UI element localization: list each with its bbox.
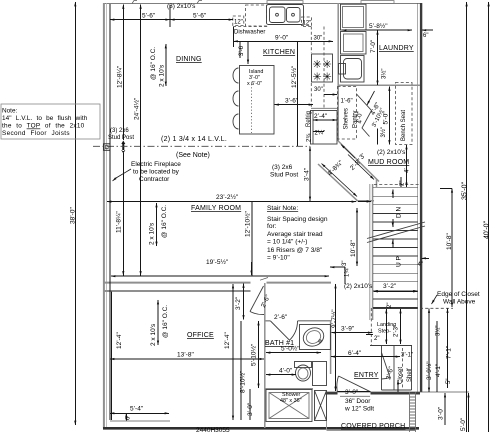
hall jog above office door <box>260 278 268 281</box>
bath door arc <box>290 321 298 340</box>
svg-text:3’-9½": 3’-9½" <box>425 361 433 380</box>
entry-porch wall right segment <box>371 392 421 394</box>
svg-text:2": 2" <box>374 336 379 342</box>
pantry 3.5 dim line <box>377 129 379 145</box>
front door leaf <box>339 376 371 392</box>
svg-text:3’-2": 3’-2" <box>235 296 242 310</box>
svg-text:4’: 4’ <box>405 168 411 173</box>
svg-text:(2) 2x10’s: (2) 2x10’s <box>377 149 406 156</box>
svg-text:24’-4½": 24’-4½" <box>133 97 141 120</box>
svg-text:MUD ROOM: MUD ROOM <box>368 159 409 166</box>
svg-text:3’-6": 3’-6" <box>285 98 299 105</box>
laundry 7ft vert dim <box>377 30 379 85</box>
12in box left of dishwasher <box>233 16 244 26</box>
bottom exterior wall <box>103 427 419 430</box>
porch left edge <box>326 392 328 430</box>
svg-text:12’-8¼": 12’-8¼" <box>117 65 124 88</box>
svg-text:Bench Seat: Bench Seat <box>401 110 407 141</box>
svg-text:(2) 2x10’s: (2) 2x10’s <box>344 283 373 290</box>
svg-text:30": 30" <box>314 87 323 93</box>
counter dashed edge below cooktop <box>310 83 312 107</box>
svg-text:1’-6": 1’-6" <box>341 99 353 105</box>
note box <box>1 104 100 139</box>
porch 3-0 vert line <box>444 393 446 425</box>
closet door arc <box>382 378 391 380</box>
edge of closet leader <box>432 295 438 304</box>
dryer box <box>341 4 367 30</box>
svg-text:DINING: DINING <box>176 56 202 63</box>
porch 5-0 vert line <box>468 393 470 432</box>
svg-text:(3) 2x6: (3) 2x6 <box>110 128 129 134</box>
office 12-4 left vert <box>111 292 113 421</box>
shower stall <box>266 390 312 422</box>
svg-text:5’-10½": 5’-10½" <box>250 343 258 366</box>
office right wall / bath left wall <box>264 283 266 428</box>
svg-text:3’-0": 3’-0" <box>438 406 445 420</box>
washer box <box>341 32 367 55</box>
bath right wall / entry left wall <box>330 321 332 374</box>
dryer inner <box>343 7 364 28</box>
svg-text:FAMILY ROOM: FAMILY ROOM <box>191 205 241 212</box>
svg-text:3": 3" <box>342 261 348 266</box>
svg-text:3’-0": 3’-0" <box>345 389 359 396</box>
closet shelf dashed <box>402 348 404 388</box>
right 10-8 dim <box>451 188 453 307</box>
bath 5-0.5 dim <box>266 352 321 354</box>
svg-text:2 x 10’s: 2 x 10’s <box>150 323 157 346</box>
sink drain left <box>276 13 279 16</box>
svg-text:12": 12" <box>303 21 312 27</box>
svg-text:3’-2": 3’-2" <box>383 283 397 290</box>
DN arrow up <box>392 190 394 199</box>
washer inner <box>344 34 364 52</box>
landing top edge <box>373 307 417 309</box>
svg-text:2’-6": 2’-6" <box>274 314 288 321</box>
2x10 joist arrow dining <box>165 44 167 86</box>
DN arrow down <box>392 219 394 227</box>
family 12-10 vert line <box>251 202 253 276</box>
svg-text:Stair Note:: Stair Note: <box>267 205 298 212</box>
kitchen 9ft drop lines <box>233 27 235 47</box>
top dim mid arrows <box>163 19 170 21</box>
pantry corner shelf diagonal <box>357 94 372 137</box>
svg-text:2": 2" <box>387 303 393 308</box>
svg-text:5’-0": 5’-0" <box>460 417 467 431</box>
mudroom 2in dim <box>400 177 402 187</box>
front door arc <box>337 376 339 392</box>
UP arrow <box>392 240 394 249</box>
svg-text:for:: for: <box>267 223 277 230</box>
right band dim lines <box>428 309 430 393</box>
landing dim line right <box>400 309 402 344</box>
stair hall left wall lower dashed <box>370 308 372 345</box>
mudroom 4ft vert dim <box>406 145 408 187</box>
family 23ft dim <box>107 201 356 203</box>
svg-text:4’-0": 4’-0" <box>279 368 293 375</box>
svg-text:12’-4": 12’-4" <box>116 332 123 349</box>
svg-text:11’-8¼": 11’-8¼" <box>116 211 123 233</box>
office top wall <box>104 290 251 292</box>
witness line left interior <box>109 4 111 420</box>
shower/bath bottom zone wall <box>265 388 313 390</box>
svg-text:Dishwasher: Dishwasher <box>234 30 265 36</box>
svg-text:12’-5½": 12’-5½" <box>290 65 298 88</box>
entry 3-0 door dim <box>338 391 371 393</box>
svg-text:Shelf: Shelf <box>407 368 413 382</box>
family room bottom wall right <box>267 282 332 284</box>
svg-text:4": 4" <box>418 262 423 268</box>
office 12-4 right vert <box>232 284 234 420</box>
svg-text:@ 16" O.C.: @ 16" O.C. <box>162 305 169 338</box>
svg-text:Edge of Closet: Edge of Closet <box>437 291 480 298</box>
stairs left wall <box>372 184 374 320</box>
bath sink oval <box>300 325 326 350</box>
svg-text:3’-4": 3’-4" <box>304 167 311 181</box>
3-4 dim near stud <box>309 147 311 202</box>
svg-text:3’-0": 3’-0" <box>247 402 254 416</box>
closet walls <box>382 345 412 390</box>
svg-text:w 12" Sdlt: w 12" Sdlt <box>344 406 374 413</box>
svg-text:23’-2½": 23’-2½" <box>216 193 239 201</box>
toilet bowl <box>296 365 311 381</box>
svg-text:(3) 2x10’s: (3) 2x10’s <box>167 3 196 10</box>
landing 2in left arrow <box>366 334 373 336</box>
kitchen sink counter <box>267 5 304 25</box>
stair treads <box>373 188 418 308</box>
stud post leader <box>122 153 124 200</box>
porch bottom edge <box>327 430 416 432</box>
family 19-5.5 dim <box>111 275 329 277</box>
header tick left <box>132 1 137 4</box>
hall 3in dim line <box>330 266 345 268</box>
svg-text:5’-4": 5’-4" <box>130 406 144 413</box>
office door leaf <box>250 286 264 312</box>
svg-text:Stud Post: Stud Post <box>270 172 298 179</box>
bath top wall right segment <box>298 320 332 322</box>
svg-text:3½": 3½" <box>435 326 442 336</box>
edge of closet dashed <box>420 307 453 309</box>
svg-text:✳: ✳ <box>323 72 332 84</box>
laundry 6in arrow <box>422 29 433 31</box>
svg-text:Note:: Note: <box>2 108 17 115</box>
laundry 3.5 vert dim <box>377 60 379 85</box>
svg-text:19’-5½": 19’-5½" <box>206 258 229 266</box>
svg-text:Refrig: Refrig <box>306 111 312 127</box>
hall dims right <box>344 267 346 284</box>
laundry sink basin <box>344 59 362 80</box>
svg-text:14" L.V.L. to be flush with: 14" L.V.L. to be flush with <box>2 115 88 122</box>
svg-text:8’-10½": 8’-10½" <box>239 370 247 393</box>
svg-text:3’-6: 3’-6 <box>239 45 245 56</box>
counter dashed edge left of cooktop <box>310 27 312 54</box>
svg-text:Average stair tread: Average stair tread <box>267 231 323 238</box>
svg-text:✳: ✳ <box>313 72 322 84</box>
svg-text:Stair Spacing design: Stair Spacing design <box>267 216 328 223</box>
island <box>240 66 275 135</box>
svg-text:(2) 1 3/4 x 14 L.V.L.: (2) 1 3/4 x 14 L.V.L. <box>161 136 227 143</box>
svg-text:2 x 10’s: 2 x 10’s <box>149 222 156 245</box>
refrigerator inner edge <box>312 111 314 145</box>
svg-text:Stud Post: Stud Post <box>108 135 134 141</box>
bench seat dashed box <box>396 83 413 145</box>
svg-text:(See Note): (See Note) <box>176 152 210 159</box>
svg-text:Electric Fireplace: Electric Fireplace <box>131 161 181 168</box>
svg-text:30": 30" <box>314 36 323 42</box>
sink basin right <box>287 8 301 23</box>
30in arrows at top <box>312 40 325 42</box>
svg-text:ENTRY: ENTRY <box>354 372 379 379</box>
island stool 2 <box>233 91 239 106</box>
header tick right <box>197 1 202 4</box>
svg-text:12": 12" <box>234 20 243 26</box>
11-8 dim line x123 lower <box>122 153 124 276</box>
kitchen right counter dashed edge <box>323 27 325 109</box>
hall 3-2 vert dim <box>243 284 245 320</box>
svg-text:3’-1": 3’-1" <box>401 353 413 359</box>
bath top wall left stub <box>265 320 271 322</box>
12-8 dim line x123 <box>122 5 124 141</box>
mudroom diagonal wall lower <box>318 164 358 201</box>
stairs 3-2 dim <box>374 290 418 292</box>
left 38ft dimension line <box>74 2 76 425</box>
laundry bottom / pantry top wall <box>338 84 420 86</box>
cooktop box <box>312 54 333 82</box>
porch hatch border <box>410 392 416 432</box>
right exterior wall <box>420 3 422 392</box>
toilet tank <box>295 362 312 368</box>
svg-text:4’-0": 4’-0" <box>358 111 364 123</box>
svg-text:✳: ✳ <box>323 59 332 71</box>
stair break line 2 <box>367 226 425 243</box>
30in lower arrow <box>324 94 337 96</box>
bath vanity counter <box>300 325 331 350</box>
svg-text:2¼": 2¼" <box>315 131 325 137</box>
landing dim line left <box>385 309 387 344</box>
2x10 joist arrow family <box>156 203 158 246</box>
diagonal hall width arrow 3ft <box>341 145 355 159</box>
toilet inner <box>298 368 308 379</box>
svg-text:Step-: Step- <box>378 329 391 335</box>
mudroom diagonal wall upper <box>338 141 379 182</box>
mudroom bottom dashed line <box>374 184 420 186</box>
top exterior wall <box>103 3 420 5</box>
svg-text:16 Risers @ 7 3/8": 16 Risers @ 7 3/8" <box>267 247 323 254</box>
refrigerator box <box>311 111 338 145</box>
dishwasher dashed box <box>246 5 267 26</box>
shower X <box>269 393 309 419</box>
12in box right of sink <box>302 17 312 26</box>
pantry dashed shelf box <box>338 87 357 140</box>
svg-text:to be located by: to be located by <box>133 169 180 176</box>
svg-text:9’-7½": 9’-7½" <box>330 309 338 328</box>
family room bottom wall left <box>104 282 251 284</box>
counter dashed right of sink <box>303 26 311 28</box>
svg-text:5’-8½": 5’-8½" <box>369 22 388 30</box>
bath 5-10 vert dim <box>258 321 260 388</box>
svg-text:5’-6": 5’-6" <box>142 13 156 20</box>
svg-text:5’-6": 5’-6" <box>193 13 207 20</box>
stud post marker inner <box>105 146 108 149</box>
svg-text:OFFICE: OFFICE <box>187 332 214 339</box>
svg-text:COVERED PORCH: COVERED PORCH <box>341 423 405 430</box>
entry-porch wall left segment <box>326 392 338 394</box>
2x10 joist arrow office <box>157 300 159 345</box>
front door threshold step <box>340 395 370 397</box>
svg-text:35’-0": 35’-0" <box>461 181 468 200</box>
mudroom wall stub at stairs <box>376 180 378 188</box>
office bottom window sill <box>110 420 170 422</box>
svg-text:@ 16" O.C.: @ 16" O.C. <box>161 205 168 238</box>
bath door leaf <box>271 321 290 340</box>
left exterior wall <box>103 3 105 428</box>
svg-text:3½": 3½" <box>381 69 388 79</box>
svg-text:7’-0": 7’-0" <box>370 39 377 53</box>
witness mid <box>169 5 171 27</box>
mudroom bottom corner arrow <box>358 201 371 203</box>
svg-text:10’-8": 10’-8" <box>350 240 357 257</box>
entry 6-4 dim <box>331 356 400 358</box>
svg-text:10’-8": 10’-8" <box>446 233 453 250</box>
fridge 2-4 dim <box>313 119 337 121</box>
shower inner <box>269 393 309 419</box>
svg-text:2 x 10’s: 2 x 10’s <box>159 64 166 87</box>
svg-text:Second Floor Joists: Second Floor Joists <box>2 130 70 137</box>
pantry 5-0 dim line <box>388 87 390 145</box>
office door arc <box>250 312 264 315</box>
landing bottom wall <box>370 344 412 346</box>
island center dotted line <box>251 84 253 133</box>
svg-text:2’-4": 2’-4" <box>314 113 328 120</box>
bath 4-0 dim <box>266 374 296 376</box>
svg-text:= 9’-10": = 9’-10" <box>267 255 290 262</box>
svg-text:3’-9": 3’-9" <box>341 326 355 333</box>
svg-text:✳: ✳ <box>313 59 322 71</box>
diagonal hall 2-8 arrow <box>348 155 374 180</box>
sink basin left <box>270 7 286 23</box>
svg-text:Wall Above: Wall Above <box>443 299 476 306</box>
bath faucet <box>319 340 321 342</box>
svg-text:6": 6" <box>126 415 132 420</box>
LVL line right part <box>93 145 103 147</box>
pantry 4-8 diagonal dim <box>367 91 375 105</box>
column chase with X <box>315 391 327 421</box>
closet door leaf <box>382 353 391 378</box>
svg-text:13’-8": 13’-8" <box>177 352 194 359</box>
bath 8-10 vert dim <box>240 321 242 420</box>
counter end above fridge <box>311 107 337 109</box>
right wall inner face <box>417 3 419 392</box>
island stool 1 <box>233 68 239 83</box>
LVL dash-dot beam line <box>107 145 310 147</box>
24-4 dim line x140 <box>140 5 142 276</box>
sink drain right <box>292 13 295 16</box>
svg-text:48" x 36": 48" x 36" <box>280 398 302 404</box>
svg-text:6": 6" <box>423 33 428 39</box>
island-fridge 3-6 dim <box>275 104 314 106</box>
right margin 35ft line <box>466 2 468 432</box>
fireplace leader <box>113 169 132 181</box>
top dim line 5-6 / 5-6 <box>110 19 233 21</box>
kitchen 9ft dim <box>234 40 334 42</box>
porch right hatch <box>410 394 416 430</box>
down arrows on 19ft line <box>251 262 253 275</box>
svg-text:38’-0": 38’-0" <box>70 207 77 224</box>
svg-text:3½": 3½" <box>380 127 387 137</box>
svg-text:= 10 1/4" (+/-): = 10 1/4" (+/-) <box>267 239 307 246</box>
svg-text:KITCHEN: KITCHEN <box>263 49 295 56</box>
office 5-4 dim <box>110 412 169 414</box>
stairs left wall outer <box>369 184 371 320</box>
island stool 3 <box>233 114 239 129</box>
svg-text:2’-3": 2’-3" <box>394 325 400 337</box>
svg-text:2": 2" <box>400 181 406 186</box>
svg-text:Shelves: Shelves <box>344 108 350 129</box>
fireplace stud marker <box>121 141 125 154</box>
svg-text:x 6’-0": x 6’-0" <box>247 81 262 87</box>
svg-text:(3) 2x6: (3) 2x6 <box>272 164 293 171</box>
bath 9-7.5 vert dim <box>335 284 337 391</box>
stud post marker left wall <box>104 144 111 151</box>
bath sink inner <box>304 328 322 345</box>
svg-text:7’-1": 7’-1" <box>446 345 453 359</box>
kitchen nook bottom wall <box>356 200 374 202</box>
office 6in arrow <box>126 414 128 421</box>
laundry soap box <box>339 64 346 75</box>
svg-text:2440H3055: 2440H3055 <box>196 427 230 432</box>
fridge small dims <box>313 131 324 133</box>
12-5.5 vert dim kitchen <box>296 41 298 146</box>
4in right stairs <box>422 257 430 259</box>
svg-text:U P: U P <box>396 256 403 267</box>
svg-text:40’-0": 40’-0" <box>483 220 490 239</box>
svg-text:Closet: Closet <box>398 367 404 384</box>
svg-text:D N: D N <box>396 207 403 219</box>
diagonal 4-8 arrow <box>322 164 358 197</box>
svg-text:1¾": 1¾" <box>345 267 351 277</box>
office 13-8 dim <box>110 358 264 360</box>
svg-text:9’-0": 9’-0" <box>275 35 289 42</box>
window above kitchen sink <box>267 1 303 4</box>
svg-text:6’-4": 6’-4" <box>348 350 362 357</box>
bath 3-0 vert dim <box>249 389 251 420</box>
svg-text:12’-4": 12’-4" <box>224 332 231 349</box>
svg-text:Contractor: Contractor <box>139 176 170 183</box>
linen cabinet <box>313 362 327 386</box>
svg-text:the to TOP of the 2x10: the to TOP of the 2x10 <box>2 123 85 130</box>
svg-text:5": 5" <box>446 379 452 384</box>
right margin 40ft line <box>488 2 490 432</box>
window above laundry <box>361 1 394 4</box>
svg-text:12’-10½": 12’-10½" <box>244 211 252 237</box>
column X <box>315 391 327 421</box>
svg-text:2¾: 2¾ <box>307 133 313 142</box>
island top arrow <box>247 41 249 64</box>
svg-text:LAUNDRY: LAUNDRY <box>379 45 414 52</box>
porch top wall <box>326 391 470 393</box>
laundry 5-8.5 dim <box>342 29 412 31</box>
stairs 10-8 dim line <box>356 208 358 266</box>
left wall inner line <box>106 3 108 428</box>
kitchen 3-6 left vert dim <box>239 41 241 58</box>
right 10-8 witness <box>440 187 452 189</box>
svg-text:36" Door: 36" Door <box>345 398 371 405</box>
counter dashed left column <box>233 26 268 28</box>
stair break line 1 <box>367 222 425 239</box>
laundry sink counter <box>341 56 365 83</box>
svg-text:4’-1": 4’-1" <box>435 363 442 377</box>
svg-text:5’-0½": 5’-0½" <box>281 345 300 353</box>
bath 3-9 dim <box>332 332 373 334</box>
